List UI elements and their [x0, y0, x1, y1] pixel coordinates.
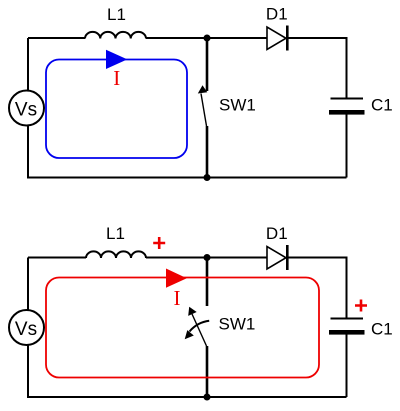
switch SW1 top contact wire (top circuit)	[206, 38, 209, 91]
red plus polarity mark near L1 (bottom circuit)	[153, 237, 165, 249]
node junction dot top (top circuit)	[204, 35, 211, 42]
node junction dot top (bottom circuit)	[204, 254, 211, 261]
node junction dot bottom (top circuit)	[204, 174, 211, 181]
svg-text:SW1: SW1	[219, 95, 256, 114]
switch SW1 motion arc arrowhead (bottom circuit)	[185, 330, 194, 339]
svg-text:D1: D1	[266, 4, 288, 23]
red plus polarity mark near C1 (bottom circuit)	[355, 300, 367, 312]
diode D1 triangle (bottom circuit)	[267, 247, 286, 270]
svg-text:I: I	[113, 66, 120, 90]
svg-text:D1: D1	[266, 224, 288, 243]
diode D1 cathode bar (bottom circuit)	[286, 245, 289, 270]
switch SW1 blade open (bottom circuit)	[192, 314, 207, 346]
voltage source Vs circle (top circuit)	[9, 91, 44, 126]
capacitor C1 top plate (top circuit)	[331, 98, 364, 100]
capacitor C1 top plate (bottom circuit)	[331, 318, 364, 320]
wire from L1 to D1 (top circuit)	[146, 37, 267, 39]
wire top-left segment (circuit 2)	[28, 257, 86, 259]
svg-text:C1: C1	[371, 96, 393, 115]
switch SW1 blade arrowhead (top circuit)	[198, 85, 208, 93]
wire from D1 to top-right corner and down to C1 (top circuit)	[288, 38, 347, 98]
wire bottom and left side (top circuit)	[28, 38, 347, 178]
diode D1 cathode bar (top circuit)	[286, 26, 289, 51]
node junction dot bottom (bottom circuit)	[204, 394, 211, 401]
diode D1 triangle (top circuit)	[267, 27, 286, 50]
red current loop (bottom circuit)	[46, 278, 319, 378]
wire bottom and left side (bottom circuit)	[28, 258, 347, 398]
blue current arrow (top circuit)	[106, 50, 127, 69]
svg-text:L1: L1	[106, 224, 125, 243]
svg-text:C1: C1	[371, 319, 393, 338]
svg-text:Vs: Vs	[15, 99, 37, 120]
svg-text:L1: L1	[107, 5, 126, 24]
svg-text:I: I	[174, 286, 181, 310]
wire from C1 down (top circuit)	[346, 115, 348, 178]
svg-text:SW1: SW1	[219, 315, 256, 334]
wire from C1 down (bottom circuit)	[346, 335, 348, 398]
red current arrow (bottom circuit)	[166, 269, 187, 288]
switch SW1 top contact wire (bottom circuit)	[206, 258, 209, 307]
wire from D1 to top-right corner and down to C1 (bottom circuit)	[288, 258, 347, 319]
wire from L1 to D1 (bottom circuit)	[146, 257, 267, 259]
switch SW1 bottom wire (top circuit)	[206, 126, 209, 178]
capacitor C1 bottom plate thick (top circuit)	[329, 110, 365, 115]
capacitor C1 bottom plate thick (bottom circuit)	[329, 330, 365, 335]
blue current loop (top circuit)	[46, 60, 187, 159]
wire top-left segment (circuit 1)	[28, 37, 85, 39]
switch SW1 bottom wire (bottom circuit)	[206, 346, 209, 397]
svg-text:Vs: Vs	[15, 319, 37, 340]
inductor L1 (top circuit) coil	[85, 32, 146, 39]
switch SW1 blade closed (top circuit)	[201, 94, 207, 127]
voltage source Vs circle (bottom circuit)	[9, 310, 44, 345]
inductor L1 (bottom circuit) coil	[86, 251, 146, 258]
switch SW1 motion arc (bottom circuit)	[190, 321, 210, 332]
switch SW1 blade arrowhead (bottom circuit)	[188, 307, 197, 316]
